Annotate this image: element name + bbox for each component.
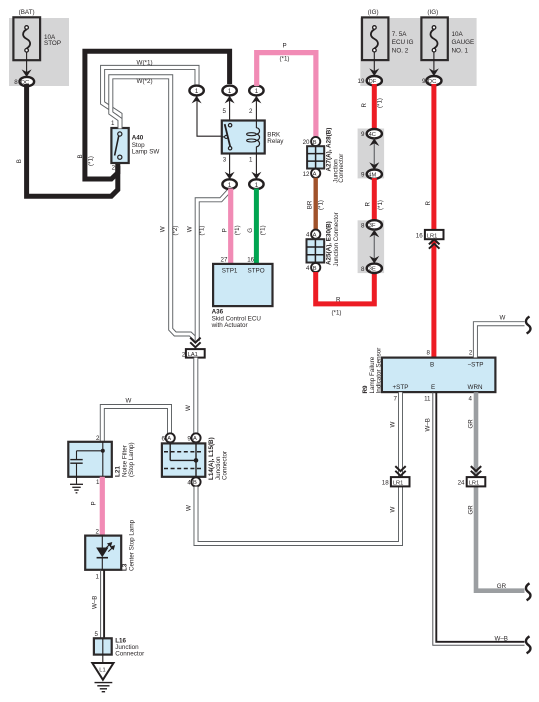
arrow into lower oval left (225, 172, 235, 180)
connector oval 1 (left, to relay pin4) (189, 86, 203, 96)
wire G (green) oval to A36 pin 16 (254, 189, 259, 265)
wire R (red) DF to 4C (372, 84, 377, 130)
svg-text:STPO: STPO (248, 268, 265, 275)
svg-text:(*2): (*2) (172, 226, 179, 236)
svg-text:L3: L3 (121, 563, 128, 571)
svg-text:(*1): (*1) (318, 200, 325, 210)
noise filter L21 (68, 442, 112, 484)
svg-text:9: 9 (422, 78, 426, 85)
ground triangle L1 (92, 663, 113, 680)
svg-text:5: 5 (95, 631, 99, 638)
connector 9 DC (422, 76, 441, 85)
svg-text:3F: 3F (369, 223, 376, 229)
svg-text:B: B (193, 480, 197, 486)
svg-text:LA1: LA1 (188, 352, 198, 358)
fuse 10A GAUGE NO.1 (421, 17, 474, 60)
chevron into LA1 (190, 338, 200, 348)
svg-text:A25(A), E30(B): A25(A), E30(B) (326, 221, 333, 265)
svg-text:1: 1 (228, 182, 232, 189)
svg-text:G: G (247, 228, 254, 233)
svg-text:−STP: −STP (468, 362, 484, 369)
connector 9 4C (361, 129, 382, 138)
svg-text:1: 1 (195, 88, 199, 95)
svg-text:18: 18 (382, 480, 389, 487)
svg-text:9: 9 (187, 435, 191, 442)
svg-text:8: 8 (361, 266, 365, 273)
wire W LA1 to junction L14 pin 9 (193, 358, 198, 434)
junction LA1 (182, 349, 205, 358)
svg-text:A40: A40 (132, 135, 144, 142)
svg-text:(*1): (*1) (377, 200, 384, 210)
chevron into LR1 from below (429, 239, 440, 248)
arrow into oval left (192, 96, 202, 104)
lamp failure indicator sensor R9 (382, 358, 496, 393)
wire W-B R9 pin11 to right edge (433, 392, 525, 645)
junction connector A27(A) A28(B) (303, 137, 325, 178)
svg-text:1: 1 (255, 88, 259, 95)
wire W(*2) switch pin1 to LA1 (111, 77, 196, 339)
svg-text:W: W (185, 405, 192, 411)
power fuse block (IG) background (360, 18, 476, 86)
svg-text:R: R (336, 297, 341, 304)
wire R (red) DC down to R9 pin 8 (431, 84, 436, 358)
svg-text:L14(A), L15(B): L14(A), L15(B) (208, 437, 215, 480)
svg-text:A: A (193, 436, 197, 442)
svg-text:8: 8 (361, 222, 365, 229)
svg-text:A: A (167, 436, 171, 442)
svg-text:L1: L1 (99, 668, 105, 674)
svg-text:B: B (16, 159, 23, 163)
svg-text:12: 12 (303, 171, 310, 178)
svg-text:(*1): (*1) (280, 56, 290, 63)
junction 24 LR1 (458, 477, 486, 487)
svg-text:W(*1): W(*1) (137, 60, 153, 67)
svg-text:P: P (91, 501, 98, 505)
connector oval 1 (right, to relay pin2) (249, 86, 263, 96)
svg-text:W: W (126, 398, 132, 405)
svg-text:4: 4 (187, 479, 191, 486)
wire W L14 pin4 to R9 pin7 via 18 LR1 (196, 392, 401, 543)
center stop lamp L3 (85, 536, 121, 570)
svg-text:W: W (390, 422, 397, 428)
svg-text:Center Stop Lamp: Center Stop Lamp (128, 519, 135, 571)
svg-text:7. 5A: 7. 5A (392, 31, 408, 38)
svg-text:NO. 1: NO. 1 (452, 47, 469, 54)
svg-text:2: 2 (112, 164, 116, 171)
wire oval to relay pin 5 (229, 96, 231, 120)
wire W-B L3 pin1 to L16 (101, 570, 105, 639)
svg-text:A27(A), A28(B): A27(A), A28(B) (325, 128, 332, 172)
svg-text:3E: 3E (369, 267, 376, 273)
offpage squiggle GR (526, 583, 531, 600)
svg-text:W: W (500, 315, 506, 322)
svg-text:Connector: Connector (222, 451, 229, 480)
svg-text:R9: R9 (362, 385, 369, 394)
svg-text:24: 24 (458, 480, 465, 487)
wire B (black) fuse DC to stop lamp switch pin 2 (27, 84, 118, 196)
svg-text:4M: 4M (368, 173, 376, 179)
svg-text:1: 1 (96, 573, 100, 580)
wire relay pin 1 to oval (255, 154, 257, 180)
fuse 7.5A ECU IG NO.2 (362, 17, 414, 60)
svg-text:8: 8 (14, 79, 18, 86)
svg-text:1: 1 (228, 88, 232, 95)
svg-text:with Actuator: with Actuator (211, 322, 248, 329)
wire fuse1 to connector DF (373, 51, 375, 75)
svg-text:9: 9 (361, 131, 365, 138)
svg-text:A: A (313, 172, 317, 178)
svg-text:19: 19 (358, 78, 365, 85)
svg-text:WRN: WRN (468, 384, 483, 391)
connector block 4C 4M background (358, 129, 385, 179)
connector 8 DC (14, 77, 34, 86)
wire BR (brown) A27 pin12 to A25 pin4 (314, 178, 318, 230)
fuse 10A STOP (13, 17, 61, 60)
connector 8 3E (361, 264, 382, 273)
svg-text:R: R (361, 103, 368, 108)
chevron into 18 LR1 (395, 466, 405, 476)
svg-text:ECU IG: ECU IG (392, 39, 414, 46)
arrow into oval middle (225, 96, 235, 104)
wire B (black) switch pin 2 to relay branch (85, 51, 230, 179)
svg-text:(IG): (IG) (368, 9, 379, 16)
svg-text:7: 7 (394, 395, 398, 402)
connector 8 3F (361, 220, 382, 229)
svg-text:8: 8 (427, 349, 431, 356)
svg-text:B: B (77, 154, 84, 158)
svg-text:Lamp SW: Lamp SW (132, 148, 160, 155)
svg-text:W(*2): W(*2) (137, 78, 153, 85)
svg-text:Connector: Connector (338, 154, 345, 183)
wire W R9 pin 2 to right edge (475, 324, 524, 358)
svg-text:W: W (186, 226, 193, 232)
svg-text:6: 6 (162, 435, 166, 442)
wire GR (gray) R9 pin4 to right edge via 24 LR1 (476, 392, 525, 591)
svg-text:P: P (222, 228, 229, 232)
svg-text:B: B (430, 362, 434, 369)
wire W(*1) switch pin1 loop to connector oval (103, 67, 197, 128)
svg-text:B: B (313, 140, 317, 146)
svg-text:4: 4 (306, 232, 310, 239)
svg-text:Relay: Relay (267, 138, 284, 145)
svg-text:NO. 2: NO. 2 (392, 47, 409, 54)
arrow into lower oval right (251, 172, 261, 180)
svg-text:27: 27 (221, 257, 228, 264)
arrow into oval right (251, 96, 261, 104)
svg-text:(BAT): (BAT) (19, 9, 35, 16)
svg-text:(*1): (*1) (260, 225, 267, 235)
svg-text:1: 1 (111, 120, 115, 127)
svg-text:11: 11 (424, 395, 431, 402)
svg-text:2: 2 (249, 108, 253, 115)
junction connector A25(A) E30(B) (306, 230, 324, 273)
offpage squiggle W (526, 317, 531, 334)
svg-text:(*1): (*1) (88, 156, 95, 166)
svg-text:4: 4 (306, 265, 310, 272)
chevron into 24 LR1 (471, 466, 481, 476)
arrow into DC (22, 69, 32, 77)
svg-text:W–B: W–B (91, 596, 98, 609)
svg-text:9: 9 (361, 172, 365, 179)
BRK relay box (222, 121, 265, 154)
svg-text:GR: GR (497, 583, 507, 590)
svg-text:L21: L21 (115, 466, 122, 477)
junction 16 LR1 on red wire (416, 230, 444, 240)
svg-text:STP1: STP1 (222, 268, 238, 275)
connector block 3F 3E background (358, 220, 385, 273)
wire R (red) 4M to 3F (372, 178, 377, 221)
wire oval to relay pin 2 (255, 96, 257, 120)
svg-text:(Stop Lamp): (Stop Lamp) (128, 442, 135, 477)
connector 9 4M (361, 170, 382, 179)
svg-text:BR: BR (307, 200, 314, 209)
link 4C to 4M with arrows (373, 139, 375, 170)
wire W(*1) from oval staircase down to LA1 (197, 191, 228, 341)
arrow into DC right (429, 68, 439, 76)
wire P (pink) top from oval to junction A27 pin 20 (257, 53, 316, 138)
svg-text:4: 4 (469, 395, 473, 402)
svg-text:W: W (160, 226, 167, 232)
svg-text:R: R (425, 201, 432, 206)
svg-text:(*1): (*1) (234, 225, 241, 235)
wire W L21 pin2 loop to L14 pin 6 (102, 407, 169, 443)
svg-text:Connector: Connector (115, 651, 144, 658)
svg-text:1: 1 (249, 157, 253, 164)
svg-text:Indicator Sensor: Indicator Sensor (376, 348, 383, 394)
svg-text:1: 1 (96, 479, 100, 486)
svg-text:W: W (185, 505, 192, 511)
svg-text:(*1): (*1) (199, 226, 206, 236)
svg-text:16: 16 (247, 257, 254, 264)
svg-text:(IG): (IG) (427, 9, 438, 16)
wire P (pink) L21 pin1 to L3 pin2 (100, 477, 105, 537)
svg-text:LR1: LR1 (393, 481, 403, 487)
connector oval 1 (middle, to relay pin5) (222, 86, 236, 96)
skid control ECU A36 (213, 264, 272, 306)
svg-text:R: R (365, 202, 372, 207)
wire oval to relay pin 4 (197, 96, 222, 136)
svg-text:20: 20 (303, 139, 310, 146)
arrow into DF (369, 68, 379, 76)
link 3F to 3E with arrows (373, 230, 375, 263)
ground bars L21 (70, 484, 83, 493)
svg-text:(*1): (*1) (377, 98, 384, 108)
svg-text:LR1: LR1 (469, 481, 479, 487)
svg-text:3: 3 (223, 157, 227, 164)
svg-text:W–B: W–B (425, 418, 432, 431)
wire relay pin 3 to oval (229, 154, 231, 180)
svg-text:(*1): (*1) (332, 310, 342, 317)
junction 18 LR1 (382, 477, 410, 487)
svg-text:B: B (313, 266, 317, 272)
svg-text:Junction Connector: Junction Connector (333, 212, 340, 266)
connector oval 1 (lower left) (222, 179, 236, 189)
junction connector L16 (94, 638, 112, 654)
svg-text:2: 2 (96, 435, 100, 442)
svg-text:2: 2 (182, 351, 186, 358)
junction connector L14(A) L15(B) (162, 433, 206, 486)
svg-text:GR: GR (467, 419, 474, 429)
svg-text:2: 2 (469, 349, 473, 356)
svg-text:LR1: LR1 (427, 233, 437, 239)
svg-text:GR: GR (467, 505, 474, 515)
svg-text:W–B: W–B (495, 636, 508, 643)
wire fuse2 to connector DC (433, 51, 435, 75)
svg-text:4C: 4C (369, 132, 376, 138)
svg-text:5: 5 (223, 108, 227, 115)
svg-text:+STP: +STP (393, 384, 409, 391)
svg-text:STOP: STOP (44, 40, 61, 47)
svg-text:1: 1 (255, 182, 259, 189)
svg-text:16: 16 (416, 233, 423, 240)
stop lamp switch A40 (111, 128, 128, 163)
wire fuse to connector DC (26, 52, 28, 76)
ground symbol bottom (95, 683, 113, 692)
svg-text:GAUGE: GAUGE (452, 39, 475, 46)
connector 19 DF (358, 76, 382, 85)
wire P (pink) oval to A36 pin 27 (228, 189, 233, 265)
svg-text:A: A (313, 233, 317, 239)
offpage squiggle W-B (526, 636, 531, 653)
wire L16 to ground triangle (102, 655, 104, 664)
svg-text:E: E (431, 384, 435, 391)
power fuse block (BAT) background (9, 18, 69, 86)
connector oval 1 (lower right) (249, 179, 263, 189)
svg-text:W: W (390, 507, 397, 513)
svg-text:P: P (283, 43, 287, 50)
svg-text:10A: 10A (452, 31, 464, 38)
wire R (red) A25 pin 4 to 3E (316, 272, 375, 304)
